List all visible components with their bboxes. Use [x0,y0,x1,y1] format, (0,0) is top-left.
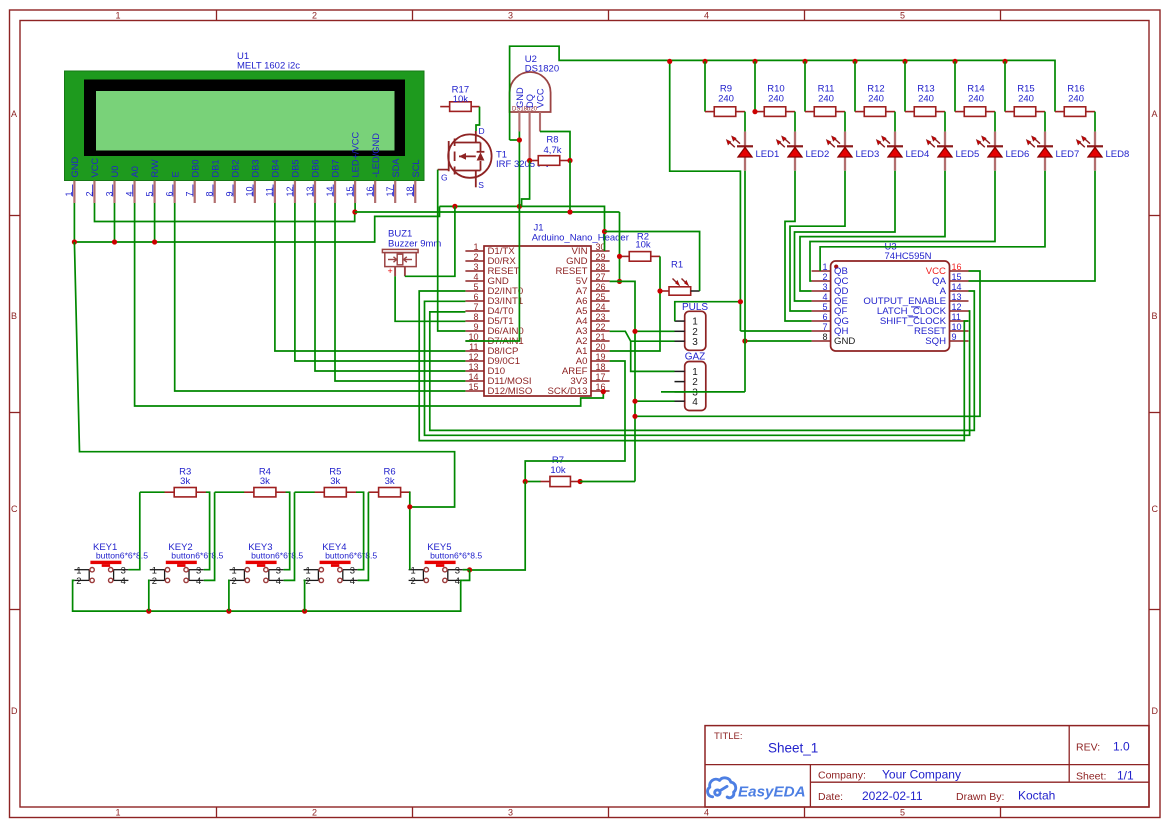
svg-text:240: 240 [868,94,884,105]
wire buzzer pin1 to D5/T1 [395,276,465,321]
svg-text:button6*6*8.5: button6*6*8.5 [430,551,482,561]
node bus column R9 [702,59,707,64]
wire R13 to LED5 [944,112,946,132]
wire KEY5 pin3 stub link [463,569,470,571]
wire DQ down jog to bus A [522,161,530,207]
node R6 GND junction [407,504,412,509]
wire LED2 to U3 QG [785,171,812,321]
J1 pin 28 RESET [591,270,610,272]
node GAZ4 junction [632,399,637,404]
svg-text:SCL: SCL [411,159,421,177]
J1 pin 1 D1/TX [465,250,484,252]
wire LCD pin14 DB7 to D11/MOSI [335,203,465,381]
svg-text:Drawn By:: Drawn By: [956,791,1004,803]
J1 pin 9 D6/AIN0 [465,330,484,332]
wire LCD pin15 LED+ [354,203,356,212]
svg-text:26: 26 [596,282,606,292]
svg-text:DS1820: DS1820 [525,64,559,75]
svg-text:4: 4 [350,575,355,586]
J1 pin 6 D3/INT1 [465,300,484,302]
wire LED1 cathode riser [744,171,746,392]
wire GAZ pin4 to 5V riser [635,400,675,402]
svg-text:R1: R1 [671,260,683,271]
wire R14 to LED6 [994,112,996,132]
node R7 left [523,479,528,484]
U2 pin GND [518,112,520,132]
wire GAZ pin3 to GND net [661,391,745,393]
svg-text:button6*6*8.5: button6*6*8.5 [171,551,223,561]
J1 pin 14 D11/MOSI [465,380,484,382]
svg-text:4: 4 [704,808,709,818]
svg-text:DB2: DB2 [230,159,240,177]
node buzzer branch [452,204,457,209]
svg-text:8: 8 [822,332,827,342]
svg-text:3k: 3k [385,476,395,487]
svg-text:G: G [441,173,448,183]
svg-text:Your Company: Your Company [882,768,961,782]
svg-text:10: 10 [952,322,962,332]
svg-text:4: 4 [276,575,281,586]
U3 pin 2 QC [812,280,831,282]
svg-text:SQH: SQH [925,336,946,347]
svg-text:DQ: DQ [525,94,535,108]
node R8 riser on bus y212 [567,209,572,214]
U3 pin 16 VCC [950,270,969,272]
node KEY2 bus [146,609,151,614]
GAZ pin 1 [675,370,685,372]
svg-text:3: 3 [121,565,126,576]
U3 pin 12 LATCH_CLOCK [950,310,969,312]
wire R17 to T1 drain [476,107,480,131]
node R8 right [567,158,572,163]
U3 pin 15 QA [950,280,969,282]
U3 pin 11 SHIFT_CLOCK [950,320,969,322]
svg-text:3k: 3k [330,476,340,487]
svg-text:4: 4 [704,11,709,21]
U1 pin 7 DB0 [194,181,196,203]
svg-text:8: 8 [473,312,478,322]
svg-text:Date:: Date: [818,791,843,803]
svg-text:3: 3 [350,565,355,576]
U3 pin 8 GND [812,340,831,342]
LED LED5 [944,132,946,146]
svg-text:240: 240 [918,94,934,105]
U3 LATCH_CLOCK overline [911,306,921,308]
wire 5V row [610,281,635,481]
J1 pin 11 D8/ICP [465,350,484,352]
svg-text:DB1: DB1 [210,159,220,177]
wire LED7 to U3 QB [820,171,1045,271]
svg-text:22: 22 [596,322,606,332]
svg-text:15: 15 [952,272,962,282]
node SCK junction [601,389,606,394]
wire LCD pin4 to SCK/D13 [135,203,604,406]
svg-text:2: 2 [152,575,157,586]
node KEY5 pin3 junction [467,567,472,572]
svg-text:10k: 10k [550,465,566,476]
wire LCD pin5 [154,203,156,242]
svg-text:2: 2 [231,575,236,586]
U3 pin 4 QE [812,300,831,302]
U1 pin 4 A0 [133,181,135,203]
wire D4/T0 to U3 A [430,291,975,430]
node LCD pin1 [72,239,77,244]
node R2 left [617,254,622,259]
BUZ1 pin 1 [394,267,396,277]
svg-text:Koctah: Koctah [1018,789,1055,803]
wire R4 right to KEY3 pin3 [284,492,290,570]
wire R6 left to KEY4 pin4 [367,491,370,493]
wire R9 to LED1 [744,112,746,132]
node bus column R13 [902,59,907,64]
svg-text:3: 3 [508,808,513,818]
resistor R7 10k [550,476,571,486]
U1 pin 5 R/W [154,181,156,203]
svg-text:A: A [1152,109,1158,119]
svg-text:7: 7 [473,302,478,312]
svg-text:3k: 3k [260,476,270,487]
wire R5 left to KEY3 pin4 [295,491,315,493]
wire KEY2 pin2 drop [149,580,150,611]
U2 pin DQ [529,112,531,132]
svg-text:Arduino_Nano_Header: Arduino_Nano_Header [532,232,629,243]
svg-text:27: 27 [596,272,606,282]
U3 pin 5 QF [812,310,831,312]
svg-text:SCK/D13: SCK/D13 [548,386,588,397]
svg-text:Company:: Company: [818,770,866,782]
wire bus A y206 to VIN [440,206,605,251]
svg-text:DB5: DB5 [291,159,301,177]
svg-text:GND: GND [834,336,855,347]
svg-text:-LED/GND: -LED/GND [371,133,381,178]
GAZ pin 2 [675,381,685,383]
J1 pin 10 D7/AIN1 [465,340,484,342]
J1 pin 25 A6 [591,300,610,302]
GAZ pin 4 [675,400,685,402]
wire LED4 to U3 QE [795,171,896,301]
svg-text:1: 1 [115,808,120,818]
node pin15 junction [352,209,357,214]
svg-text:REV:: REV: [1076,742,1100,754]
svg-text:240: 240 [818,94,834,105]
LED LED2 [794,132,796,146]
sensor U2 DS1820 TO-92 [510,72,551,112]
svg-text:Buzzer 9mm: Buzzer 9mm [388,238,441,249]
J1 pin 29 GND [591,260,610,262]
wire R3 right to KEY2 pin3 [204,492,210,570]
wire A3 to PULS pin3 [610,331,675,341]
wire U2 VCC to R8 right [540,132,570,161]
photoresistor R1 [669,287,691,295]
node bus column R14 [952,59,957,64]
wire LCD pin2 VCC [95,203,355,222]
svg-text:1: 1 [115,11,120,21]
resistor R8 4.7k [538,156,560,166]
J1 pin 20 A1 [591,350,610,352]
svg-text:21: 21 [596,332,606,342]
J1 pin 19 A0 [591,360,610,362]
svg-text:2: 2 [76,575,81,586]
svg-text:5: 5 [822,302,827,312]
svg-text:12: 12 [468,352,478,362]
node VIN branch to R1 [602,229,607,234]
svg-text:19: 19 [596,352,606,362]
svg-text:7: 7 [822,322,827,332]
resistor R4 3k [254,488,276,497]
R8 left lead [530,160,539,162]
wire bus y212 riser to 5V [619,212,621,281]
resistor R2 10k [629,252,651,262]
svg-text:5: 5 [900,11,905,21]
svg-text:6: 6 [473,292,478,302]
svg-text:DB6: DB6 [311,159,321,177]
svg-text:DB3: DB3 [250,159,260,177]
svg-text:LED3: LED3 [856,149,880,160]
svg-text:4: 4 [473,272,478,282]
svg-text:2: 2 [312,11,317,21]
wire KEY4 pin2 drop [304,580,305,611]
svg-text:3: 3 [508,11,513,21]
U3 pin 7 QH [812,330,831,332]
wire R15 to LED7 [1044,112,1046,132]
svg-text:U0: U0 [110,166,120,178]
wire LCD pin3 [114,203,116,242]
J1 pin 17 3V3 [591,380,610,382]
U1 pin 2 VCC [93,181,95,203]
svg-text:23: 23 [596,312,606,322]
svg-text:4: 4 [121,575,126,586]
wire R8 right to bus y212 [569,161,571,213]
wire D2/INT0 to SHIFT_CLOCK [419,291,968,441]
PULS pin 2 [675,330,685,332]
svg-text:LED6: LED6 [1006,149,1030,160]
wire U3 QH to riser x740 [740,330,811,332]
wire R16 to LED8 [1094,112,1096,132]
wire LCD pin1 GND down [73,203,75,242]
svg-text:R8: R8 [546,135,558,146]
svg-text:LED+/VCC: LED+/VCC [351,131,361,177]
U1 pin 8 DB1 [214,181,216,203]
svg-text:VCC: VCC [90,158,100,178]
svg-text:1: 1 [473,242,478,252]
node LCD pin5 [152,239,157,244]
svg-text:DB0: DB0 [190,159,200,177]
R2 left lead [620,255,630,257]
wire U3 VCC supply line [635,271,980,416]
wire bus branch to x670 riser [670,61,741,331]
svg-text:E: E [170,171,180,177]
wire LCD pin12 DB5 to D9/0C1 [295,203,466,361]
svg-text:4,7k: 4,7k [544,145,562,156]
svg-text:1/1: 1/1 [1117,768,1134,782]
svg-text:D: D [479,126,485,136]
svg-text:3: 3 [276,565,281,576]
svg-text:4: 4 [196,575,201,586]
node PULS1 junction [738,299,743,304]
svg-text:25: 25 [596,292,606,302]
U3 pin 13 OUTPUT_ENABLE [950,300,969,302]
svg-text:R/W: R/W [150,159,160,177]
J1 pin 2 D0/RX [465,260,484,262]
wire U2 top loop to LED supply bus [510,46,1055,140]
wire LED5 to U3 QD [800,171,945,291]
U1 pin 18 SCL [414,181,416,203]
svg-text:LED8: LED8 [1106,149,1130,160]
U3 pin1 marker [834,265,838,269]
wire D3/INT1 to LATCH_CLOCK [425,301,970,435]
U1 pin 16 -LED/GND [374,181,376,203]
U3 SHIFT_CLOCK overline [909,316,919,318]
node PULS2 junction [632,329,637,334]
wire R3 left to KEY1 pin3 [140,491,165,493]
svg-text:LED7: LED7 [1056,149,1080,160]
wire T1 gate to D6/AIN0 [438,170,466,331]
resistor R3 3k [174,488,196,497]
J1 pin 24 A5 [591,310,610,312]
svg-text:3: 3 [822,282,827,292]
svg-text:6: 6 [822,312,827,322]
svg-text:11: 11 [469,342,478,352]
U3 pin 14 A [950,290,969,292]
svg-text:C: C [1152,504,1159,514]
svg-text:18: 18 [596,362,606,372]
resistor R6 3k [379,488,401,497]
svg-text:28: 28 [596,262,606,272]
svg-text:24: 24 [596,302,606,312]
svg-text:SDA: SDA [391,158,401,178]
node LED1 riser GND junction [742,338,747,343]
wire U2 DQ to R8 [529,132,531,160]
svg-text:14: 14 [952,282,962,292]
J1 pin 7 D4/T0 [465,310,484,312]
wire R12 to LED4 [894,112,896,132]
resistor R16 240 [1064,107,1086,117]
node KEY3 bus [226,609,231,614]
J1 pin 13 D10 [465,370,484,372]
svg-text:240: 240 [718,94,734,105]
U3 pin 3 QD [812,290,831,292]
wire LCD pin6 to D12/MISO [175,203,466,391]
svg-text:2: 2 [312,808,317,818]
svg-text:17: 17 [596,372,606,382]
PULS pin 1 [675,320,685,322]
svg-text:C: C [11,504,18,514]
wire bus A to D7/AIN1 through J1 [465,206,519,341]
svg-text:2: 2 [410,575,415,586]
LED LED6 [994,132,996,146]
J1 pin 26 A7 [591,290,610,292]
wire KEY3 pin2 drop [228,580,231,611]
node VCC line junction [632,414,637,419]
J1 pin 27 5V [591,280,610,282]
transistor T1 IRF 3205 PV [448,134,491,177]
wire PULS pin1 riser [675,302,741,321]
node R7 right [578,479,583,484]
svg-text:1: 1 [410,565,415,576]
svg-text:1: 1 [76,565,81,576]
svg-text:LED4: LED4 [906,149,930,160]
IC U3 74HC595N [831,261,950,351]
EasyEDA logo [708,778,736,798]
svg-text:14: 14 [468,372,478,382]
svg-text:13: 13 [952,292,962,302]
J1 pin 16 SCK/D13 [591,390,610,392]
svg-text:3: 3 [196,565,201,576]
node U2 GND pin [517,137,522,142]
node bus column R10 [752,59,757,64]
wire LED8 to U3 QA [969,171,1096,281]
svg-text:GND: GND [515,87,525,108]
svg-text:1.0: 1.0 [1113,740,1130,754]
wire LED6 to U3 QC [810,171,995,281]
node bus column R11 [802,59,807,64]
J1 pin 8 D5/T1 [465,320,484,322]
svg-text:16: 16 [952,262,962,272]
LED LED4 [894,132,896,146]
svg-text:10k: 10k [635,239,651,250]
wire PULS pin2 to 5V riser [635,330,675,332]
J1 pin 30 VIN [591,250,610,252]
svg-text:10k: 10k [453,94,469,105]
J1 pin 23 A4 [591,320,610,322]
node R1 left [657,288,662,293]
svg-text:5: 5 [473,282,478,292]
wire GND diagonal to key area [74,242,454,507]
J1 pin 3 RESET [465,270,484,272]
svg-text:240: 240 [768,94,784,105]
svg-text:3k: 3k [180,476,190,487]
U1 pin 14 DB7 [334,181,336,203]
U1 pin 17 SDA [394,181,396,203]
U3 pin 6 QG [812,320,831,322]
node LCD pin3 [112,239,117,244]
wire R10 to LED2 [794,112,796,132]
svg-text:3: 3 [473,262,478,272]
T1 gate lead [438,169,449,171]
U1 pin 13 DB6 [314,181,316,203]
svg-text:9: 9 [952,332,957,342]
svg-text:4: 4 [822,292,827,302]
title block [705,726,1149,807]
svg-text:240: 240 [968,94,984,105]
wire A0 to R7 area [525,361,625,482]
svg-text:1: 1 [305,565,310,576]
svg-text:DB4: DB4 [271,159,281,177]
R8 right lead [560,160,570,162]
GAZ pin 3 [675,391,685,393]
R2 right lead [651,255,660,257]
resistor R17 10k [450,102,472,112]
svg-text:B: B [1152,311,1158,321]
J1 pin 18 AREF [591,370,610,372]
svg-text:29: 29 [596,252,606,262]
U1 pin 10 DB3 [254,181,256,203]
wire R7 left riser to KEY5 pin3 [470,482,526,571]
svg-text:2: 2 [473,252,478,262]
wire U2 GND junction [510,139,520,141]
svg-text:LED5: LED5 [956,149,980,160]
node KEY4 bus [302,609,307,614]
svg-text:Sheet_1: Sheet_1 [768,741,818,756]
node bus column R15 [1002,59,1007,64]
wire R11 to LED3 [844,112,846,132]
svg-text:A0: A0 [130,166,140,177]
wire KEY5 pin4 link [463,570,470,581]
U3 pin 1 QB [812,270,831,272]
svg-text:11: 11 [952,312,961,322]
LED LED7 [1044,132,1046,146]
PULS pin 3 [675,340,685,342]
